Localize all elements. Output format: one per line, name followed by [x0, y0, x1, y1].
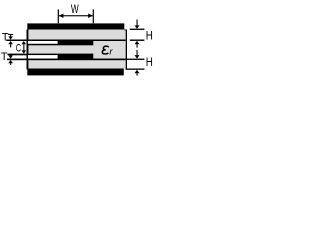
svg-text:W: W: [71, 2, 79, 16]
upper white channel: [28, 41, 58, 44]
upper trace (conductor): [58, 40, 94, 46]
dimension H bottom up arrowhead: [135, 70, 140, 73]
dimension H bottom tick 1: [127, 59, 144, 60]
permittivity label epsilon: [102, 46, 109, 54]
svg-text:C: C: [16, 43, 21, 55]
bottom ground plane: [27, 69, 124, 76]
dielectric body (gray box): [27, 30, 127, 70]
dimension H top upper stem: [137, 20, 138, 27]
dimension H bottom lower stem: [137, 73, 138, 76]
dimension W right arrowhead: [88, 14, 93, 18]
signal layer 2 bottom line: [7, 59, 126, 61]
dimension T upper down arrowhead: [8, 36, 13, 39]
dimension H top up arrowhead: [135, 41, 140, 44]
top ground plane: [27, 23, 124, 29]
dimension T lower top stem: [10, 54, 11, 57]
dimension W line: [59, 15, 93, 16]
dimension H bottom down arrowhead: [135, 55, 140, 59]
dimension C down arrowhead: [22, 50, 27, 53]
dimension W right extension tick: [93, 9, 94, 23]
svg-text:T: T: [1, 51, 8, 63]
dimension H bottom upper stem: [137, 50, 138, 55]
dimension H bottom tick 2: [126, 69, 145, 70]
dimension W left extension tick: [58, 9, 59, 23]
signal layer 1 line: [6, 40, 126, 42]
signal layer 2 top line: [8, 54, 58, 56]
dimension C stem: [23, 44, 24, 50]
dimension T upper bottom stem: [10, 44, 11, 47]
dimension T lower up arrowhead: [8, 60, 13, 63]
dimension H top down arrowhead: [135, 25, 140, 28]
dimension W left arrowhead: [59, 14, 64, 18]
dimension C up arrowhead: [22, 41, 27, 44]
upper channel bottom line: [28, 44, 58, 46]
dimension T lower bottom stem: [10, 63, 11, 65]
dielectric right border: [126, 30, 127, 70]
lower white channel: [28, 55, 58, 59]
dimension T upper top tick: [8, 34, 13, 35]
dimension T lower down arrowhead: [8, 55, 13, 58]
dimension H top lower stem: [137, 44, 138, 48]
dimension T upper up arrowhead: [8, 41, 13, 44]
lower trace (conductor): [58, 54, 94, 59]
svg-text:T: T: [2, 32, 9, 44]
dimension H top tick 1: [130, 29, 145, 30]
dielectric left border: [27, 30, 29, 70]
svg-text:H: H: [146, 55, 153, 69]
dimension T upper top stem: [10, 35, 11, 37]
svg-text:H: H: [146, 28, 153, 42]
dimension H top tick 2: [130, 40, 145, 41]
dielectric top-right corner tick: [124, 29, 127, 32]
